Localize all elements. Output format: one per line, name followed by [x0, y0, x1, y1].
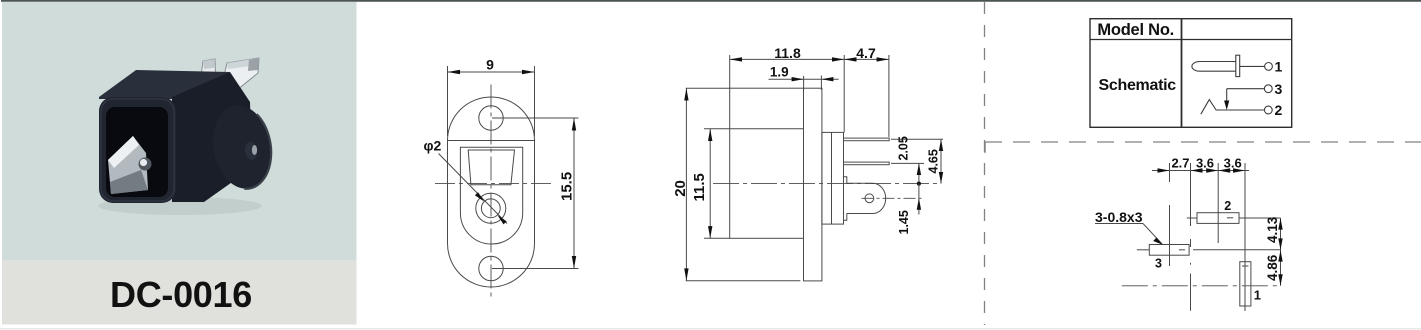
- dimension 11.5: dim line: [704, 237, 730, 239]
- pcb dim row: dim line: [1152, 170, 1249, 172]
- svg-text:20: 20: [672, 180, 689, 197]
- pin 2 extension line: [891, 162, 924, 164]
- dimension 15.5: extension lines: [492, 117, 579, 119]
- jack photo: contact pin dot: [139, 158, 152, 171]
- table outer border: [1090, 19, 1292, 128]
- jack photo: shadow: [98, 197, 262, 215]
- svg-text:3-0.8x3: 3-0.8x3: [1095, 209, 1143, 225]
- pad 3: [1149, 245, 1189, 256]
- body box: [730, 88, 804, 238]
- dimension 1.9: dim line with outside arrows: [769, 78, 839, 80]
- pad 2 hole mark: [1227, 217, 1233, 219]
- svg-text:3.6: 3.6: [1224, 155, 1242, 170]
- top mounting hole: [479, 106, 503, 130]
- table row divider: [1090, 39, 1292, 41]
- center pin inner circle: [481, 199, 500, 218]
- vertical centerline: [490, 85, 492, 299]
- dimension 2.05: dim line: [918, 163, 920, 183]
- dimension 11.8: extension lines: [729, 55, 731, 88]
- dashed corner stub: [984, 142, 986, 153]
- FRONT VIEW: [424, 57, 579, 299]
- dimension 9: dim line and arrows: [448, 71, 535, 73]
- flange plate: [804, 88, 822, 281]
- schematic: tip bar: [1236, 55, 1240, 76]
- pad 1: [1240, 262, 1251, 306]
- svg-text:1.45: 1.45: [897, 210, 911, 234]
- page top border: [1, 0, 1421, 2]
- pin 1 (top): [844, 138, 890, 141]
- rear housing box: [822, 132, 844, 224]
- ear root notches: [844, 177, 847, 183]
- dimension 4.7: dim line: [844, 58, 889, 60]
- dimension 4.13 and 4.86: dim line: [1280, 218, 1282, 286]
- jack window outline: [460, 147, 522, 244]
- svg-text:1: 1: [1275, 59, 1283, 75]
- jack photo: top face: [99, 70, 230, 99]
- svg-text:2.7: 2.7: [1171, 155, 1189, 170]
- main horizontal centerline: [713, 183, 941, 185]
- svg-text:11.5: 11.5: [691, 173, 708, 201]
- jack photo: front window: [106, 107, 168, 197]
- svg-text:Model No.: Model No.: [1097, 21, 1174, 39]
- pad 2: [1197, 213, 1239, 224]
- slot callout underline and leader: [1095, 223, 1143, 225]
- svg-text:2: 2: [1275, 102, 1283, 118]
- schematic: wire to terminal 1: [1240, 65, 1265, 67]
- PHOTO PANEL: [2, 2, 357, 325]
- bottom mounting hole: [479, 256, 503, 280]
- PCB LAYOUT: [1095, 155, 1283, 311]
- svg-text:3: 3: [1275, 81, 1283, 97]
- svg-text:11.8: 11.8: [774, 45, 801, 61]
- pin 1 extension line: [891, 138, 943, 140]
- ear hole centerline: [862, 197, 925, 199]
- svg-text:3.6: 3.6: [1196, 155, 1214, 170]
- pad 1 hole mark: [1242, 265, 1249, 267]
- svg-text:4.13: 4.13: [1265, 216, 1280, 243]
- pad 3 hole mark: [1179, 249, 1185, 251]
- dimension 1.45: dim line: [918, 184, 920, 215]
- front flange seam line: [448, 140, 535, 142]
- TABLE + SCHEMATIC: [1090, 19, 1292, 128]
- rear housing internal line: [831, 132, 833, 224]
- jack photo: pin right: [221, 58, 259, 90]
- jack window trapezoid: [468, 150, 514, 185]
- svg-text:Schematic: Schematic: [1099, 77, 1177, 94]
- svg-text:2: 2: [1224, 199, 1231, 213]
- schematic: terminal 1 circle: [1265, 63, 1273, 71]
- jack photo: metal contact inside: [108, 136, 148, 194]
- center pin outer circle: [476, 193, 506, 223]
- SEPARATORS: [985, 2, 1421, 325]
- schematic: wire to terminal 3: [1227, 88, 1265, 90]
- jack photo: ear disc: [207, 101, 278, 194]
- SIDE VIEW: [672, 45, 943, 281]
- schematic: terminal 3 circle: [1264, 85, 1272, 93]
- svg-text:15.5: 15.5: [558, 172, 575, 201]
- page bottom border: [0, 328, 1421, 330]
- jack photo: pin left: [199, 59, 216, 91]
- label band: [2, 260, 357, 325]
- jack photo: ear hole highlight: [244, 141, 259, 161]
- pad 3 centerline: [1137, 249, 1150, 251]
- dimension 20: dim line: [685, 88, 687, 281]
- svg-text:4.86: 4.86: [1265, 254, 1280, 281]
- schematic: plug tube symbol: [1192, 55, 1272, 114]
- dimension 15.5: dim line and arrows: [573, 118, 575, 269]
- pcb dim row arrows: [1158, 168, 1170, 172]
- jack photo: right body to ear: [172, 72, 252, 202]
- jack photo: front bezel: [99, 97, 176, 203]
- mounting ear tab: [847, 183, 886, 213]
- dimension 1.9: extension lines: [803, 76, 805, 90]
- dimension 4.7: extension line: [888, 55, 890, 137]
- schematic: spring contact and wire to terminal 2: [1201, 100, 1264, 115]
- pad 2 centerline: [1187, 217, 1197, 219]
- table column divider: [1181, 19, 1183, 128]
- dimension 11.8: dim line: [730, 58, 845, 60]
- pcb extension verticals: [1169, 163, 1171, 182]
- dimension 9: extension lines: [447, 66, 449, 136]
- horizontal centerline: [435, 183, 553, 185]
- dimension 4.65: dim line: [940, 139, 942, 183]
- svg-text:φ2: φ2: [424, 138, 442, 154]
- svg-text:1: 1: [1254, 288, 1261, 303]
- svg-text:4.65: 4.65: [926, 149, 940, 173]
- svg-text:4.7: 4.7: [856, 45, 876, 61]
- dimension phi2: leader line: [439, 154, 508, 224]
- pin 2: [844, 162, 890, 165]
- front view obround outline: [448, 97, 535, 287]
- ear hole: [865, 194, 874, 203]
- svg-text:1.9: 1.9: [770, 65, 789, 80]
- body internal seam line: [704, 128, 804, 130]
- dimension 20: extension lines: [686, 87, 730, 89]
- svg-text:DC-0016: DC-0016: [110, 274, 252, 315]
- svg-text:3: 3: [1155, 257, 1162, 271]
- photo background: [2, 2, 357, 260]
- pcb main horizontal centerline: [1122, 285, 1282, 287]
- svg-text:9: 9: [486, 57, 494, 73]
- vertical dashed separator: [984, 2, 986, 325]
- svg-text:2.05: 2.05: [897, 136, 911, 160]
- schematic: terminal 2 circle: [1264, 106, 1272, 114]
- schematic: switch arrow down: [1226, 89, 1228, 101]
- horizontal dashed separator: [985, 141, 1421, 143]
